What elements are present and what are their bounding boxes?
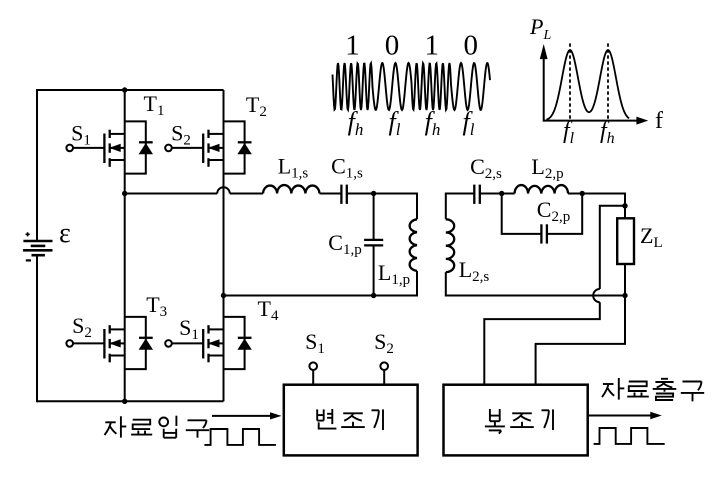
node secondary left junction (499, 191, 504, 196)
inductor L2,p (515, 185, 568, 193)
svg-text:f: f (655, 108, 663, 134)
wire node down to C1p (373, 194, 375, 241)
modulator box (284, 385, 418, 456)
wire top rail (37, 89, 224, 91)
battery plate short (31, 245, 46, 248)
capacitor C1,p plate top (364, 239, 383, 241)
svg-text:1: 1 (345, 30, 360, 62)
terminal S1 of modulator (309, 362, 317, 370)
label modulator (Korean byeonjogi) (317, 409, 383, 430)
spectrum y-axis (543, 57, 545, 122)
wire node to L2p (502, 193, 515, 195)
wire demod tap1 lower (484, 302, 600, 385)
arrow data output (588, 415, 651, 417)
transistor T4 (224, 317, 245, 369)
battery plate short bottom (32, 254, 45, 257)
node tank bottom junction (371, 293, 376, 298)
battery plus sign (26, 232, 30, 236)
wire ZL stub bottom (624, 264, 626, 296)
wire right bridge leg (223, 90, 225, 401)
transistor T1 (125, 121, 146, 173)
wire demod tap1 upper (600, 206, 625, 289)
capacitor C2,p plate right (546, 224, 548, 243)
wire L2s bottom (446, 272, 625, 295)
svg-text:1: 1 (424, 30, 439, 62)
inductor L1,s (263, 185, 320, 193)
capacitor C1,s plate left (340, 185, 342, 204)
wire bottom rail (37, 400, 224, 402)
wire C2p branch right (547, 194, 582, 234)
svg-text:0: 0 (464, 30, 479, 62)
node secondary right junction (580, 191, 585, 196)
wire L2s top corner (446, 194, 475, 220)
squarewave data input (204, 429, 276, 445)
label demodulator (Korean bokjogi) (485, 409, 553, 434)
load Z_L box (617, 218, 634, 264)
node ZL top tap (622, 203, 627, 208)
squarewave data output (594, 428, 665, 444)
node bottom-rail junction (122, 399, 127, 404)
wire left bridge leg (124, 90, 126, 401)
node bridge right midpoint (221, 293, 226, 298)
wire L2p node to ZL corner (568, 194, 625, 206)
spectrum dashed line f_h (607, 43, 609, 120)
wire demod tap2 (536, 296, 625, 386)
capacitor C2,s plate right (479, 185, 481, 204)
battery minus sign (26, 259, 31, 261)
wire C2s to node (480, 193, 502, 195)
label data-input (Korean jaryo-ipgu) (105, 416, 210, 438)
FSK waveform (333, 63, 491, 110)
capacitor C2,p plate left (540, 224, 542, 243)
capacitor C1,p plate bottom (364, 244, 383, 246)
svg-text:0: 0 (385, 30, 400, 62)
node tank top junction (371, 191, 376, 196)
wire C2p branch left (502, 194, 542, 234)
transistor T3 (125, 317, 146, 369)
terminal S2 of modulator (380, 362, 388, 370)
label data-output (Korean jaryo-chulgu) (602, 378, 704, 401)
spectrum dashed line f_l (569, 43, 571, 120)
wire tap1 hop over bottom wire (593, 289, 600, 302)
wire L1s to C1s (320, 193, 342, 195)
capacitor C2,s plate left (473, 185, 475, 204)
node bridge left midpoint (122, 191, 127, 196)
wire bridge output upper (125, 193, 218, 195)
wire left battery rail upper (36, 89, 38, 242)
wire C1p to bottom (373, 245, 375, 295)
wire node to L1p corner (374, 194, 417, 220)
transistor T2 (224, 121, 245, 173)
wire hop over right leg (217, 187, 230, 193)
battery &#949; plate long top (23, 240, 52, 243)
node top-rail junction (122, 87, 127, 92)
battery plate long (23, 249, 52, 252)
svg-text:ε: ε (59, 218, 71, 249)
wire ZL stub top (624, 206, 626, 219)
inductor L1,p (410, 219, 417, 271)
spectrum x-axis (544, 120, 638, 122)
wire C1s to node (347, 193, 374, 195)
wire tank bottom (224, 295, 375, 297)
wire left battery rail lower (36, 255, 38, 402)
capacitor C1,s plate right (346, 185, 348, 204)
wire to L1s (230, 193, 263, 195)
spectrum curve (547, 50, 630, 120)
wire L1p to bottom corner (372, 271, 417, 296)
inductor L2,s (446, 219, 454, 272)
arrow data input (212, 415, 272, 417)
node bottom right junction (622, 293, 627, 298)
demodulator box (444, 385, 588, 456)
